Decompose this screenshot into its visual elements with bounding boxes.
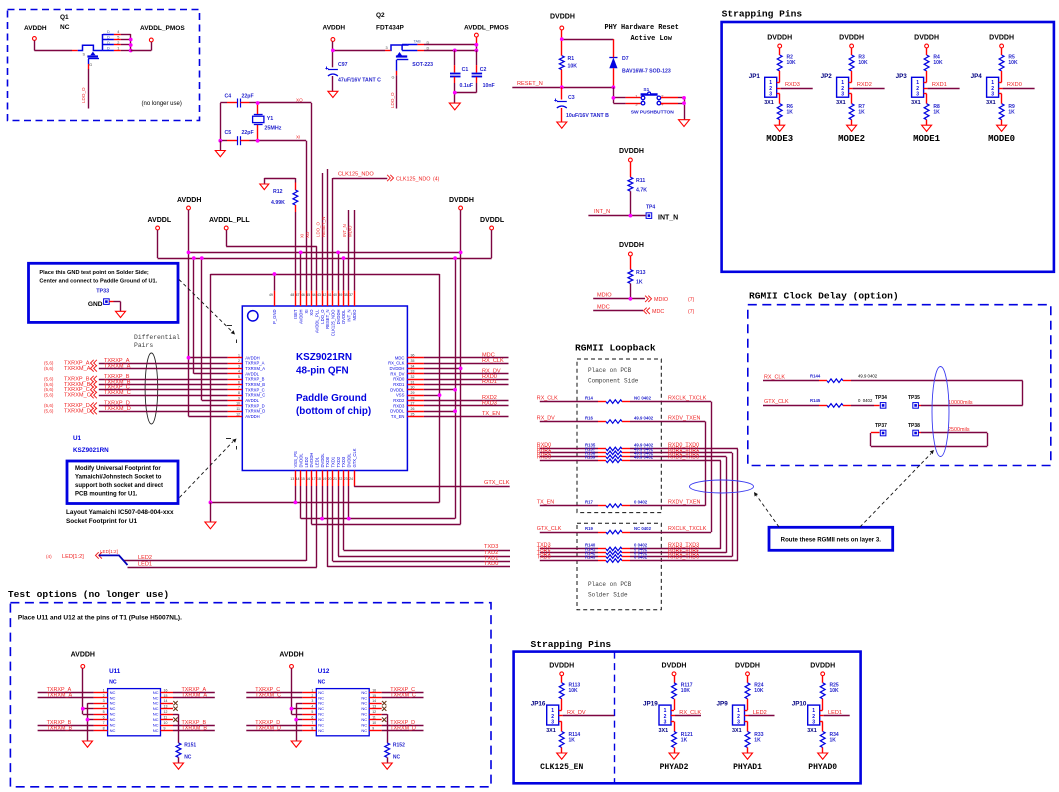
svg-text:LED[1:2]: LED[1:2] [100,549,118,554]
svg-text:TP38: TP38 [908,423,920,429]
svg-text:AVDDL_PLL: AVDDL_PLL [209,217,250,224]
svg-text:36: 36 [411,354,415,358]
svg-text:KSZ9021RN: KSZ9021RN [73,447,109,454]
wire RESET_N net [512,81,613,88]
transistor Q1 PMOS [78,45,103,67]
svg-text:3X1: 3X1 [836,100,846,106]
svg-text:0 0402: 0 0402 [634,554,648,559]
resistor R7 1K [849,104,865,126]
svg-text:10K: 10K [787,60,797,66]
svg-text:DVDDL: DVDDL [390,387,405,392]
junction dots S1 [682,96,686,105]
svg-text:5: 5 [103,710,105,714]
svg-text:0.1uF: 0.1uF [460,83,474,89]
wire LED2 net [124,486,307,561]
svg-text:D7: D7 [622,56,629,62]
svg-text:15: 15 [301,477,305,481]
svg-text:GTX_CLK: GTX_CLK [764,399,789,405]
power AVDDL_PMOS (Q2) [464,25,509,37]
wire Q2 drain D row [402,47,476,51]
svg-text:RX_DV: RX_DV [567,710,586,716]
testpoint TP34 [875,395,887,408]
resistor R2 10K [777,48,796,71]
svg-text:27: 27 [411,402,415,406]
ground (C3) [557,122,567,128]
svg-text:TXRXM_A: TXRXM_A [245,366,265,371]
svg-text:JP4: JP4 [971,73,983,80]
wire JP2 pin3 to resistor [849,94,852,104]
svg-text:D: D [107,41,110,45]
svg-text:U1: U1 [73,435,82,442]
net arrow MDIO out [645,296,695,303]
wire crystal XO net [220,98,311,103]
svg-text:TXRXM_D: TXRXM_D [390,725,416,731]
svg-text:Differential: Differential [134,334,180,341]
net TXRXM_D wire+arrow [44,406,228,415]
capacitor C5 [225,130,254,145]
svg-text:Strapping Pins: Strapping Pins [531,639,612,650]
svg-text:(5,6): (5,6) [44,366,54,371]
power AVDDH (Q2) [323,25,346,42]
power DVDDH (chip) [449,197,474,210]
wire U11 right net TXRXM_B [173,725,215,731]
svg-text:PHYAD2: PHYAD2 [660,763,689,772]
svg-text:TX_EN: TX_EN [482,411,500,417]
ground (R151) [174,763,184,769]
power AVDDL_PMOS stem (Q2) [476,37,478,50]
label MODE0 [988,134,1015,144]
ground (R152) [382,763,392,769]
svg-text:PCB mounting for U1.: PCB mounting for U1. [75,492,138,498]
ground (C1 C2) [449,103,460,110]
route note box [769,527,893,550]
net TXRXM_C wire+arrow [44,390,228,399]
svg-text:1K: 1K [636,280,643,286]
svg-text:(5,6): (5,6) [44,409,54,414]
svg-text:(5,6): (5,6) [44,361,54,366]
junction dot reset top [560,37,564,41]
svg-text:14: 14 [372,699,376,703]
svg-text:NC: NC [110,728,116,733]
svg-text:10: 10 [236,402,240,406]
svg-text:NC: NC [153,723,159,728]
power DVDDH (JP4) [989,35,1014,48]
junction dots Q2 drain rail [453,43,478,52]
svg-text:G: G [89,63,92,67]
svg-text:4.99K: 4.99K [271,200,285,206]
svg-text:0 0402: 0 0402 [634,500,648,505]
power DVDDH (JP19) [662,662,687,675]
svg-text:DVDDH: DVDDH [449,197,474,204]
svg-text:LDO_O: LDO_O [316,222,321,237]
svg-text:12: 12 [372,710,376,714]
svg-text:1: 1 [311,688,313,692]
wire JP1 net RXD3 [777,82,813,88]
svg-text:1K: 1K [933,110,940,116]
svg-text:3: 3 [991,92,994,98]
power DVDDH (MDIO) [619,242,644,256]
wire U12 left net TXRXM_D [246,725,302,731]
wire DVDDL top pin tap [343,258,345,291]
svg-text:20: 20 [328,477,332,481]
wire U12 right net TXRXM_C [382,693,424,699]
ground (JP3) [922,125,932,131]
svg-text:NC: NC [361,717,367,722]
junction dots crystal [218,101,259,143]
label PHYAD0 [808,763,837,772]
wire U11 left net TXRXP_B [38,720,94,726]
svg-text:MODE0: MODE0 [988,134,1015,144]
svg-text:support both socket and direct: support both socket and direct [75,483,163,489]
resistor R143 TXD0 loopback [537,554,738,562]
svg-text:10: 10 [164,721,168,725]
strapping pins box (top) [722,22,1054,272]
resistor R17 TX_EN loopback [537,500,705,508]
svg-text:3: 3 [664,719,667,725]
resistor R34 1K [820,732,839,754]
wire R144 to delay loop [843,381,1023,406]
resistor R114 1K [559,732,580,754]
U1 top pins 37-48 and P_GND 49 [269,291,357,337]
svg-text:6: 6 [103,716,105,720]
svg-text:10: 10 [372,721,376,725]
svg-text:12: 12 [236,412,240,416]
svg-text:(7): (7) [688,309,695,315]
svg-text:GTX_CLK: GTX_CLK [484,480,510,486]
svg-text:MDIO: MDIO [654,297,668,303]
svg-text:C3: C3 [568,95,575,101]
svg-text:R143: R143 [585,554,596,559]
power DVDDH (INT_N) [619,148,644,162]
svg-text:DVDDH: DVDDH [619,242,644,249]
svg-text:40: 40 [333,293,337,297]
U1 reference labels [73,435,109,454]
power DVDDH (reset) [550,14,575,30]
test options dashed box [10,603,491,787]
resistor R14 RX_CLK loopback [537,395,711,403]
svg-text:NC: NC [153,728,159,733]
svg-text:DVDDH: DVDDH [336,310,341,325]
svg-text:RX_CLK: RX_CLK [537,395,558,401]
U1 left pins 1-12 [228,354,266,419]
svg-text:AVDDL_PMOS: AVDDL_PMOS [140,25,185,32]
capacitor C1 0.1uF [450,50,473,92]
U1 footprint note text [75,466,163,498]
svg-text:C5: C5 [225,130,232,136]
svg-text:10K: 10K [830,688,840,694]
ground (AVDDH U11) [83,741,93,747]
svg-text:(5,6): (5,6) [44,387,54,392]
resistor R33 1K [745,732,764,754]
crystal Y1 25MHz [253,103,282,141]
net arrow CLK125_NDO out [387,175,440,183]
svg-text:46: 46 [301,293,305,297]
wire RXD2 right net [424,395,509,401]
svg-text:DVDDH: DVDDH [735,662,760,669]
svg-text:3: 3 [916,92,919,98]
net TXRXP_B wire+arrow [44,374,228,383]
svg-text:33: 33 [411,370,415,374]
wire TXD2 net [338,486,510,557]
ground (S1) [679,120,690,127]
svg-text:FDT434P: FDT434P [376,25,404,32]
svg-text:LED1: LED1 [828,710,842,716]
wire AVDDH to Q1 source [34,40,77,50]
svg-text:3: 3 [737,719,740,725]
resistor R3 10K [849,48,868,71]
clock delay bundle ellipse [932,367,949,457]
svg-text:15: 15 [372,694,376,698]
svg-text:3: 3 [769,92,772,98]
svg-text:GND: GND [88,301,103,308]
jumper JP19 3X1 [643,701,671,734]
wire JP4 net RXD0 [999,82,1035,88]
svg-text:13: 13 [290,477,294,481]
svg-text:C97: C97 [338,62,348,68]
resistor R12 4.99K (ISET) [271,178,298,291]
svg-text:2: 2 [103,694,105,698]
svg-text:RXD3: RXD3 [785,82,800,88]
svg-text:2: 2 [238,359,240,363]
svg-text:LED2: LED2 [304,456,309,467]
IC U12 body [302,688,381,736]
transistor Q2 PMOS FDT434P [386,45,434,68]
svg-text:AVDDL_PMOS: AVDDL_PMOS [464,25,509,32]
svg-text:TP34: TP34 [875,395,887,401]
ground (paddle gnd) [205,502,216,528]
wire U12 right net TXRXP_D [382,720,424,726]
layout note text [66,509,174,525]
junction dot AVDDH (U12) [290,707,294,711]
svg-text:LDO_O: LDO_O [320,309,325,324]
svg-text:11: 11 [164,716,168,720]
svg-text:4.7K: 4.7K [636,188,647,194]
power AVDDH (U11) [71,652,95,669]
label CLK125_EN [540,763,583,772]
junction dot DVDDH top pin [336,251,340,255]
svg-text:JP2: JP2 [821,73,833,80]
svg-text:Q2: Q2 [376,12,385,19]
svg-text:Socket Footprint for U1: Socket Footprint for U1 [66,518,137,525]
svg-text:15: 15 [164,694,168,698]
U1 footprint note box [67,461,178,504]
svg-text:XI: XI [304,310,309,314]
svg-text:DVDDH: DVDDH [549,662,574,669]
resistor R16 RX_DV loopback [537,415,705,423]
svg-text:NC: NC [153,706,159,711]
ground (JP4) [997,125,1007,131]
svg-text:38: 38 [344,293,348,297]
wire RXD3 right net [424,401,509,407]
dashed arrow U1 note to chip [180,439,237,498]
svg-text:R19: R19 [585,526,593,531]
svg-text:TP33: TP33 [96,289,109,295]
junction dot AVDDH (U11) [81,707,85,711]
svg-text:RXD3_TXD3: RXD3_TXD3 [668,455,699,461]
wire JP3 net RXD1 [924,82,960,88]
svg-text:INT_N: INT_N [658,215,678,222]
svg-text:AVDDH: AVDDH [245,355,259,360]
svg-text:SW PUSHBUTTON: SW PUSHBUTTON [631,109,675,115]
svg-text:INT_N: INT_N [594,209,610,215]
svg-text:MDC: MDC [652,309,664,315]
svg-text:RX_CLK: RX_CLK [388,361,404,366]
power DVDDH (JP16) [549,662,574,675]
svg-text:R14: R14 [585,395,593,400]
wire JP2 pin1 to resistor [849,71,852,83]
junction dots AVDDH rail [187,251,191,360]
svg-text:45: 45 [306,293,310,297]
wire S1 to ground [661,98,685,120]
svg-text:R144: R144 [810,374,821,379]
svg-text:AVDDH: AVDDH [279,652,303,659]
svg-text:Q1: Q1 [60,14,69,21]
junction dot C1 C2 join [453,91,457,95]
svg-text:NC: NC [318,728,324,733]
ground (TP33) [116,311,126,317]
svg-text:RX_DV: RX_DV [390,371,404,376]
svg-text:AVDDH: AVDDH [177,197,201,204]
svg-text:Layout Yamaichi IC507-048-004-: Layout Yamaichi IC507-048-004-xxx [66,509,174,516]
junction dot gnd (U11) [86,718,90,722]
svg-text:DVDDH: DVDDH [550,14,575,21]
svg-text:10nF: 10nF [483,83,495,89]
svg-text:LED[1:2]: LED[1:2] [62,554,84,560]
svg-text:MDIO: MDIO [348,225,353,237]
svg-text:1K: 1K [754,738,761,744]
svg-text:TXD0: TXD0 [484,561,498,567]
svg-text:TXRXM_A: TXRXM_A [47,693,73,699]
svg-text:NC: NC [153,690,159,695]
junction dot pushbutton left [612,96,616,100]
wire IC gnd net (U12) [296,703,302,741]
svg-text:12: 12 [164,710,168,714]
diode D7 BAV16W-7 [609,56,671,87]
resistor R137 RXD1 loopback [537,447,732,455]
wire AVDDH rail to Q2 [333,41,391,67]
svg-text:RESET_N: RESET_N [325,310,330,329]
svg-text:PHYAD1: PHYAD1 [733,763,762,772]
svg-text:RXD3: RXD3 [537,455,551,461]
wire DVDDH reset node [562,30,614,56]
switch S1 SW PUSHBUTTON [631,87,675,115]
resistor R138 RXD2 loopback [537,451,727,459]
ground (ISET R12) [260,184,269,190]
wire JP19 pin3 to resistor [671,722,675,732]
svg-text:3: 3 [103,699,105,703]
svg-text:NC: NC [393,755,401,761]
svg-text:NC: NC [109,680,117,686]
wire JP1 pin1 to resistor [777,71,780,83]
svg-text:Strapping Pins: Strapping Pins [722,9,803,20]
svg-text:19: 19 [322,477,326,481]
wire R145 to TP34 [843,405,880,407]
svg-text:NC 0402: NC 0402 [634,526,652,531]
label 2500mils [948,427,970,433]
label PHYAD2 [660,763,689,772]
jumper JP2 3X1 [821,73,849,106]
svg-text:Place U11 and U12 at the pins: Place U11 and U12 at the pins of T1 (Pul… [18,615,182,622]
svg-text:TXD3: TXD3 [341,456,346,467]
svg-text:41: 41 [328,293,332,297]
RGMII Loopback title [575,343,656,354]
svg-text:JP10: JP10 [792,701,807,708]
Q2 labels [376,12,404,32]
ground (JP16) [557,753,567,759]
svg-text:MDIO: MDIO [352,309,357,321]
svg-text:R13: R13 [636,270,646,276]
power AVDDL (chip) [148,217,172,230]
net TXRXP_D wire+arrow [44,401,228,410]
ground (C97) [328,91,338,97]
svg-text:NC: NC [361,706,367,711]
svg-text:DVDDL: DVDDL [320,453,325,468]
svg-text:AVDDH: AVDDH [71,652,95,659]
svg-text:NC: NC [361,690,367,695]
svg-text:3: 3 [238,364,240,368]
svg-text:TXRXM_C: TXRXM_C [245,393,265,398]
jumper JP16 3X1 [531,701,559,734]
net TXRXP_C wire+arrow [44,385,228,394]
junction dots AVDDL rail [192,256,204,260]
wire TX_EN right net [424,411,509,417]
resistor R1 10K [559,56,577,88]
svg-text:TXRXM_C: TXRXM_C [255,693,281,699]
svg-text:4: 4 [238,370,240,374]
wire JP4 pin1 to resistor [999,71,1002,83]
wire RXD1 right net [424,379,509,385]
wire U11 left net TXRXM_B [38,725,94,731]
svg-text:TXD3: TXD3 [484,544,498,550]
loopback component-side dashed box [577,359,661,513]
svg-text:NC: NC [361,723,367,728]
svg-text:25: 25 [411,412,415,416]
svg-text:AVDDH: AVDDH [245,414,259,419]
loopback bundle ellipse [690,480,754,493]
TP33 note box [29,263,179,322]
wire C1-C2 bottom join [455,93,477,104]
svg-text:1: 1 [238,354,240,358]
svg-text:TXRXP_D: TXRXP_D [245,403,264,408]
resistor R113 10K [559,676,580,699]
junction dots GND ring [209,272,442,504]
svg-text:44: 44 [312,293,316,297]
Strapping Pins title (top) [722,9,803,20]
wire TP37 stub [871,432,880,434]
svg-text:U12: U12 [318,668,330,675]
svg-text:5: 5 [311,710,313,714]
wire loopback vertical RXCLK_TXCLK [711,402,713,532]
svg-text:MODE2: MODE2 [838,134,865,144]
svg-text:RX_CLK: RX_CLK [679,710,701,716]
svg-text:11: 11 [372,716,376,720]
svg-text:NC: NC [318,690,324,695]
svg-text:22pF: 22pF [242,130,254,136]
svg-text:NC: NC [153,701,159,706]
svg-text:TXRXM_A: TXRXM_A [64,366,91,372]
svg-text:10uF/16V TANT B: 10uF/16V TANT B [566,113,609,119]
svg-text:RXD0: RXD0 [1007,82,1022,88]
svg-text:47uF/16V TANT C: 47uF/16V TANT C [338,78,381,84]
ground (JP19) [669,753,679,759]
strapping pins divider dashed [614,652,616,784]
route note text [781,537,882,544]
differential pairs ellipse [145,353,158,424]
svg-text:NC: NC [110,690,116,695]
power DVDDL (chip) [480,217,505,230]
svg-text:NC: NC [153,695,159,700]
svg-text:LED1: LED1 [315,456,320,467]
